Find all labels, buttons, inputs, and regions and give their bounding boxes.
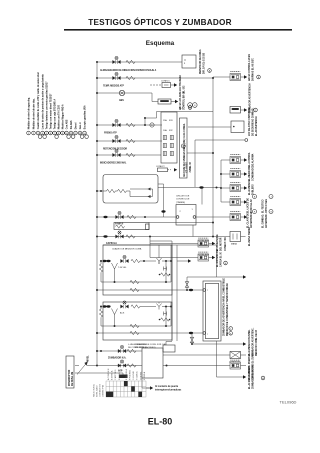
fuse block J/B [161, 112, 177, 163]
svg-text:COMBINADO: COMBINADO [252, 167, 255, 181]
svg-text:BLOQUE DE FUSIBLES RELE (J/B): BLOQUE DE FUSIBLES RELE (J/B) CAJA CONEX… [183, 123, 186, 177]
connector row y202 [221, 201, 230, 203]
resistor row1 [126, 60, 135, 63]
svg-text:EL-102: EL-102 [184, 85, 186, 93]
vertical x216 lower [216, 341, 218, 377]
terminal box row8 [230, 232, 241, 242]
svg-text:EL-80: EL-80 [148, 417, 173, 427]
svg-text:s: s [207, 334, 208, 336]
svg-text:DE ALARMA: DE ALARMA [252, 153, 255, 167]
legend item 12 [74, 122, 78, 135]
svg-text:INDICADORES 2ND MAL: INDICADORES 2ND MAL [100, 162, 127, 165]
level switch body [66, 356, 74, 388]
noise suppressor X box [230, 352, 241, 359]
wire row1 warning lamp feed [97, 61, 182, 63]
svg-text:Modelos con T/A CD20: Modelos con T/A CD20 [58, 104, 61, 129]
lamp-diode cluster row2 [113, 72, 121, 79]
svg-text:Sin ABS: Sin ABS [70, 120, 73, 129]
connector circle D on row4 [150, 123, 154, 127]
svg-text:TEL096D: TEL096D [280, 400, 297, 405]
wire y290 gauge feed [97, 289, 203, 291]
svg-text:E SEGUR A: E SEGUR A [125, 369, 128, 380]
wire to connector row y77 [213, 76, 230, 78]
svg-text:LUZ DE AVISO CINTURON: LUZ DE AVISO CINTURON [248, 108, 251, 136]
svg-text:Testigo con caja STD/2WD A: Testigo con caja STD/2WD A [54, 99, 57, 130]
svg-text:DEL MOTOR: DEL MOTOR [221, 237, 223, 251]
svg-text:INTERRUPTOR: INTERRUPTOR [69, 369, 71, 386]
wire row2 [97, 77, 213, 79]
svg-text:CIRCUITO DE: CIRCUITO DE [176, 196, 190, 198]
lamp-diode cluster row6 [113, 149, 121, 156]
svg-text:TABLERO: TABLERO [252, 184, 255, 195]
svg-text:15A: 15A [163, 119, 167, 122]
legend item 5 [45, 81, 49, 135]
svg-text:NIVEL BAJO: NIVEL BAJO [96, 385, 99, 397]
wire row5 [97, 140, 162, 142]
connector circle A1 [208, 69, 212, 73]
legend item 13 [78, 122, 84, 139]
legend item 6 [49, 93, 53, 135]
svg-text:Con ABS: Con ABS [66, 119, 69, 129]
lamp-diode cluster row5 [113, 135, 121, 142]
ABS lamp [119, 90, 124, 95]
svg-text:EL-MEDIDOR: EL-MEDIDOR [249, 166, 251, 181]
svg-text:F PUERTA: F PUERTA [129, 370, 132, 380]
wire row6 [97, 154, 161, 156]
svg-text:CARGA EL-30: CARGA EL-30 [220, 251, 223, 267]
wire y344 [192, 343, 243, 345]
svg-text:C ATP SEG: C ATP SEG [114, 369, 117, 380]
CONECT stub row y85 [150, 84, 162, 86]
small coil [161, 273, 170, 276]
legend item 8 [57, 104, 61, 135]
left supply bus [96, 62, 98, 366]
svg-text:Cuadro medidor de comb. ATP y: Cuadro medidor de comb. ATP y zumb. de a… [37, 72, 40, 129]
svg-text:2: 2 [180, 211, 182, 213]
svg-text:ZUMBADOR DE ADVERTENCIA NIVEL: ZUMBADOR DE ADVERTENCIA NIVEL COMBUSTIBL… [223, 278, 226, 336]
resistor pack diodes [148, 188, 151, 191]
meter outer right wires [150, 240, 172, 242]
wire row8 long feed [97, 236, 230, 238]
vertical x216 [216, 245, 218, 277]
svg-text:EL-ZUMBAD.: EL-ZUMBAD. [262, 214, 265, 228]
legend item 10 [65, 119, 71, 138]
svg-text:REPETIDOR DE DIREC.: REPETIDOR DE DIREC. [200, 48, 202, 74]
vertical link x163 [163, 184, 165, 217]
svg-text:DE NIVEL UB: DE NIVEL UB [72, 371, 74, 386]
svg-text:SELECTOR A: SELECTOR A [93, 384, 96, 397]
connector row y160 [221, 159, 230, 161]
resistor row6 [126, 153, 135, 156]
wire row3 ABS lamp [97, 92, 152, 94]
svg-text:EL-CONTROL: EL-CONTROL [249, 152, 251, 167]
legend item 11 [69, 120, 75, 138]
svg-text:Gas. A: Gas. A [79, 122, 82, 129]
svg-text:D ZUMB. N: D ZUMB. N [119, 369, 121, 380]
svg-text:EL-LUCES DE: EL-LUCES DE [248, 198, 250, 214]
stub bus x145 [144, 118, 146, 125]
svg-text:CUADRO DE MEDIDOR COMB.: CUADRO DE MEDIDOR COMB. [112, 248, 142, 251]
svg-text:DIR. D/V EL-102 SIS: DIR. D/V EL-102 SIS [204, 52, 206, 74]
wire pack to y187 [158, 183, 164, 185]
svg-text:ZUMB. 08: ZUMB. 08 [190, 162, 192, 173]
svg-text:J: J [270, 197, 271, 199]
meter box lower [103, 302, 172, 340]
vertical resistor left [99, 264, 102, 272]
svg-text:J DIESEL: J DIESEL [140, 370, 142, 380]
wire y355 [163, 354, 230, 356]
svg-text:DE SEGURIDAD ZUMBAD.: DE SEGURIDAD ZUMBAD. [252, 107, 255, 136]
svg-text:G LUZ AV: G LUZ AV [132, 370, 135, 380]
wire row10 [97, 365, 142, 367]
wire row7 to buzzer [97, 216, 176, 218]
wire row4 [97, 124, 162, 126]
wire loop to bus [149, 222, 213, 224]
svg-text:CIERRE PTA: CIERRE PTA [102, 384, 105, 397]
svg-text:1: 1 [192, 209, 194, 211]
wire y187 from resistor pack [158, 187, 221, 189]
svg-text:ZUMBADOR ADVERTENC.: ZUMBADOR ADVERTENC. [252, 327, 255, 356]
legend item 9 [61, 104, 65, 135]
resistor row2 [126, 76, 135, 79]
legend item 2 [32, 98, 36, 135]
svg-text:s: s [207, 290, 208, 292]
wire y377 [217, 376, 244, 378]
resistor row5 [126, 139, 135, 142]
svg-text:Al contacto de puerta: Al contacto de puerta [155, 385, 179, 388]
svg-text:interruptores/cerraduras: interruptores/cerraduras [155, 389, 182, 392]
connector circles K1 [188, 103, 193, 108]
unit box TR2 [231, 121, 244, 133]
svg-text:CONTACTO B: CONTACTO B [99, 383, 102, 397]
wire bend row3 [152, 93, 158, 102]
svg-text:MEDIDOR DE COMBUSTIBLE Y SENSO: MEDIDOR DE COMBUSTIBLE Y SENSOR UNIDAD [226, 283, 229, 336]
svg-text:EL-CLAVE DE: EL-CLAVE DE [247, 213, 250, 228]
connector circle C1 [257, 75, 261, 79]
svg-text:EL-MASA TIERRA: EL-MASA TIERRA [248, 226, 251, 246]
svg-text:Modelos Wagon 4WD A: Modelos Wagon 4WD A [62, 104, 65, 129]
legend item 3 [36, 72, 42, 139]
wire y365 [163, 365, 230, 367]
link bus x221 [220, 160, 222, 202]
svg-text:FRENO ATP: FRENO ATP [104, 132, 117, 135]
resistor pack box [103, 175, 158, 204]
svg-text:ALMACENADOR DE DIRECCION DIVIS: ALMACENADOR DE DIRECCION DIVISOR D/VIAJE… [100, 69, 157, 72]
lamp-diode cluster row4 [113, 119, 121, 126]
svg-text:NIVEL: NIVEL [88, 355, 90, 362]
wire y153 from fuse label box to bus [187, 152, 213, 154]
svg-text:J: J [230, 329, 231, 331]
svg-text:CONECT. M4: CONECT. M4 [224, 237, 227, 251]
buzzer feed stub [201, 188, 203, 205]
legend item 4 [41, 74, 47, 139]
lower wire in box2 [101, 281, 171, 283]
svg-text:B NIVEL A: B NIVEL A [111, 370, 114, 380]
legend item 14 [83, 105, 89, 138]
connector row y174 [221, 173, 230, 175]
svg-text:ACS: ACS [120, 312, 125, 315]
svg-text:Excepto gasolina USA: Excepto gasolina USA [84, 105, 87, 129]
svg-text:EL-ADVERTENCIA: EL-ADVERTENCIA [255, 116, 258, 136]
svg-text:EL-TESTIGO: EL-TESTIGO [263, 199, 265, 213]
fuel sender circles [229, 327, 233, 331]
table filled cells [106, 392, 113, 397]
svg-text:A LUZ TRASERA: A LUZ TRASERA [179, 75, 182, 93]
svg-text:EL-A: EL-A [179, 107, 184, 110]
resistor row4 [126, 123, 135, 126]
svg-text:TESTIGOS ÓPTICOS Y ZUMBADOR: TESTIGOS ÓPTICOS Y ZUMBADOR [88, 16, 231, 27]
svg-text:F33: F33 [169, 120, 173, 122]
unit box B1 top right [182, 55, 196, 68]
svg-text:A COMUN N: A COMUN N [107, 368, 110, 380]
fusible link bottom [191, 333, 193, 344]
capacitor H [163, 267, 165, 271]
arrow stub y261 [177, 260, 188, 262]
svg-text:TEMP. MEDIOS ATP: TEMP. MEDIOS ATP [103, 85, 124, 88]
fuse label box [180, 118, 188, 178]
svg-text:10A: 10A [163, 129, 167, 132]
svg-text:OPTICO SEG: OPTICO SEG [266, 199, 268, 213]
svg-text:Medidor de nivel de agua dep.: Medidor de nivel de agua dep. [28, 97, 31, 130]
table out arrow [146, 387, 151, 389]
svg-text:CONEXION DE CONS. FOR. DEL: CONEXION DE CONS. FOR. DEL [135, 344, 167, 346]
relay coil loop [114, 223, 149, 230]
svg-text:MEDIDOR COMB. UB-08: MEDIDOR COMB. UB-08 [256, 329, 258, 356]
svg-text:MASA: MASA [231, 243, 237, 246]
svg-text:Testigo luminoso con motor gas: Testigo luminoso con motor gasolina G15/… [46, 81, 49, 130]
connector row y188 [221, 187, 230, 189]
fuel sender unit box inner [205, 283, 218, 338]
buzzer ground stub [192, 225, 194, 237]
door contact arrow [142, 378, 150, 388]
lower box internals [158, 302, 160, 304]
wire y127 to box TR2 [188, 126, 231, 128]
svg-text:(TIMBRE): (TIMBRE) [176, 202, 185, 204]
lamp-diode cluster row1 [113, 56, 121, 63]
svg-text:H GASOL: H GASOL [136, 370, 139, 380]
fuel sender unit box outer [203, 281, 221, 341]
svg-text:PR. NIVEL (ACCESO): PR. NIVEL (ACCESO) [135, 346, 156, 349]
legend item 7 [53, 99, 59, 139]
svg-text:HACIA CONTROL LUCES: HACIA CONTROL LUCES [248, 54, 251, 81]
svg-text:EL-ILUMINAC. PUERTAS: EL-ILUMINAC. PUERTAS [248, 353, 251, 380]
level switch blade [77, 363, 87, 375]
right bus [212, 77, 214, 237]
svg-text:T-50 VEL: T-50 VEL [118, 267, 127, 269]
transistor V lower box [112, 309, 115, 315]
svg-text:Luces de aviso de presion de a: Luces de aviso de presion de aceite y ca… [42, 74, 45, 130]
meter box upper [103, 245, 172, 295]
pin grid table [106, 381, 146, 397]
svg-text:EL-ILUMINACION ZUMB.: EL-ILUMINACION ZUMB. [248, 329, 251, 356]
junction connexion box [142, 348, 163, 378]
svg-text:9: 9 [184, 63, 186, 65]
svg-text:ZUMBADOR N.A.: ZUMBADOR N.A. [108, 356, 127, 359]
wire y245 top of meter [103, 244, 217, 246]
svg-text:Medidor de nivel de aire dep.: Medidor de nivel de aire dep. [33, 98, 36, 129]
wire row9 [97, 350, 142, 352]
buzzer output row y217 [196, 216, 230, 218]
wire to top feeder [145, 112, 213, 119]
aux box above [163, 345, 175, 352]
wire y277 [187, 276, 243, 278]
svg-text:Diesel: Diesel [76, 122, 78, 129]
table left labels [93, 383, 105, 397]
table feed [122, 373, 124, 375]
svg-text:ABS: ABS [119, 99, 124, 102]
svg-text:F32: F32 [169, 130, 173, 132]
svg-text:ADVERTENC.: ADVERTENC. [265, 213, 268, 228]
svg-text:M: M [182, 146, 184, 148]
svg-text:CONTROL DE: CONTROL DE [176, 199, 190, 201]
switch to bus wire [87, 365, 97, 367]
svg-text:CAPSULA: CAPSULA [106, 242, 117, 245]
vertical links in box [165, 261, 167, 282]
svg-text:Testigo con motor diesel TD25/: Testigo con motor diesel TD25/27 [50, 93, 53, 129]
stub wire y140 with terminal [195, 140, 245, 187]
top right relay row y110 [230, 107, 241, 114]
buzzer control box [176, 205, 196, 226]
svg-text:K 4WD A: K 4WD A [143, 371, 146, 380]
svg-text:DIURNAS EL-96 SIST.: DIURNAS EL-96 SIST. [252, 58, 255, 81]
title rule [64, 29, 292, 31]
fusible link top [186, 277, 188, 290]
table headers [107, 368, 146, 380]
link bus x150 [149, 237, 151, 258]
legend item 1 [27, 97, 31, 135]
transistor V upper box [112, 263, 115, 269]
svg-text:Esquema: Esquema [146, 40, 175, 47]
relay element K1 [158, 99, 171, 104]
connector C1 [230, 72, 241, 81]
switch lower wire [79, 372, 123, 374]
svg-text:CONEXION: CONEXION [229, 361, 240, 363]
svg-text:ADVERTENCIA: ADVERTENCIA [250, 211, 253, 228]
svg-text:CERRADURAS EL-ZUMB.: CERRADURAS EL-ZUMB. [252, 352, 255, 380]
svg-text:EL-ILUMINAC.: EL-ILUMINAC. [248, 179, 251, 195]
wire y333 gauge feed lower [97, 332, 203, 334]
